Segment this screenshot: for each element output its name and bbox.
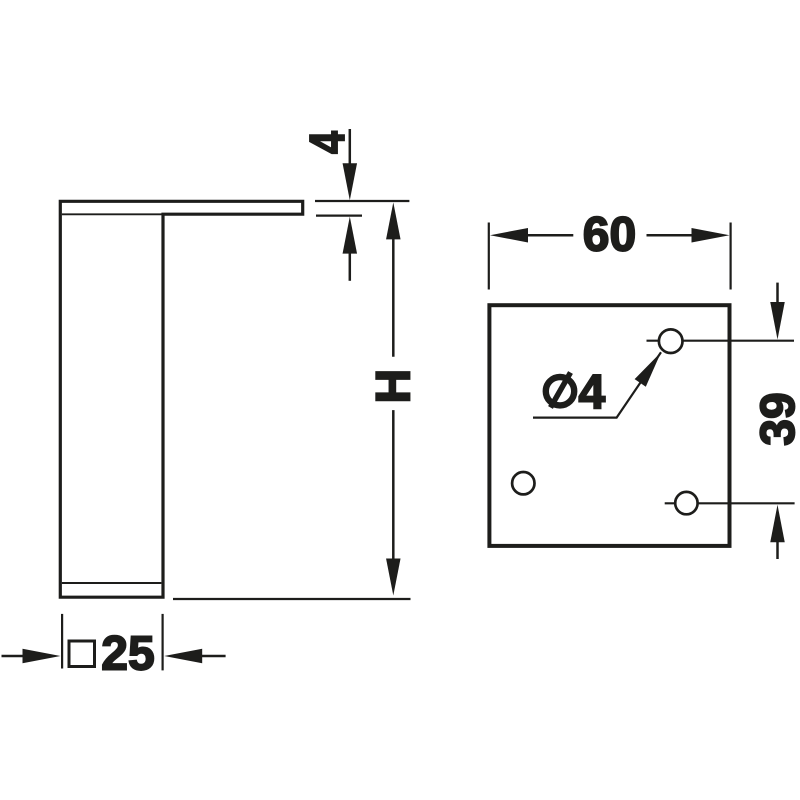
dim 60 left line xyxy=(526,234,573,237)
leg side view silhouette (top plate + column) xyxy=(60,201,302,597)
top hole xyxy=(659,329,683,353)
extension line through top hole (dim 39) xyxy=(647,340,795,342)
bottom right hole xyxy=(675,492,697,514)
dim 39 upper arrowhead (down) xyxy=(770,302,785,340)
seam line between plate and column xyxy=(62,213,163,215)
dim 25 left tail xyxy=(2,655,25,658)
plate top view square xyxy=(489,305,729,546)
extension line left (dim 60) xyxy=(488,223,490,290)
svg-text:25: 25 xyxy=(101,627,154,680)
dim 25 right tail xyxy=(200,655,225,658)
label diameter symbol slash xyxy=(551,373,571,408)
dim 4 upper tail xyxy=(349,129,352,166)
extension line right (dim 25) xyxy=(162,614,164,671)
extension line plate bottom (dim 4) xyxy=(316,215,362,217)
dim H lower arrowhead (down) xyxy=(386,559,401,596)
square symbol of label 25 xyxy=(69,641,95,667)
label diameter symbol ring xyxy=(546,377,574,405)
svg-text:39: 39 xyxy=(752,392,800,445)
dim 4 lower arrowhead (up) xyxy=(343,217,358,254)
extension line left (dim 25) xyxy=(61,614,63,669)
dim 60 right arrowhead (right) xyxy=(692,228,730,242)
svg-text:H: H xyxy=(368,369,421,404)
dim 39 lower arrowhead (up) xyxy=(770,505,785,543)
extension line through bottom hole (dim 39) xyxy=(665,502,795,504)
dim 4 lower tail xyxy=(349,252,352,281)
extension line right (dim 60) xyxy=(729,223,731,290)
foot line near column bottom xyxy=(62,582,161,584)
extension line bottom of column (dim H) xyxy=(173,598,411,600)
dim 25 right arrowhead (left) xyxy=(164,649,202,664)
dim H upper tail xyxy=(392,237,395,356)
svg-text:4: 4 xyxy=(300,131,355,154)
dim 25 left arrowhead (right) xyxy=(23,649,61,664)
dim 39 lower tail xyxy=(776,540,779,559)
dim H lower tail xyxy=(392,410,395,559)
dim 4 upper arrowhead (down) xyxy=(343,163,358,200)
dim 60 left arrowhead (left) xyxy=(490,228,528,242)
extension line top (shared by dim 4 and dim H) xyxy=(315,200,409,202)
dim H upper arrowhead (up) xyxy=(386,202,401,239)
dim 60 right line xyxy=(647,234,694,237)
dim 39 upper tail xyxy=(776,283,779,303)
svg-text:4: 4 xyxy=(579,366,606,419)
leader arrowhead xyxy=(635,352,661,386)
left hole xyxy=(512,472,534,494)
leader line for hole diameter xyxy=(533,352,661,417)
svg-text:60: 60 xyxy=(583,209,636,262)
